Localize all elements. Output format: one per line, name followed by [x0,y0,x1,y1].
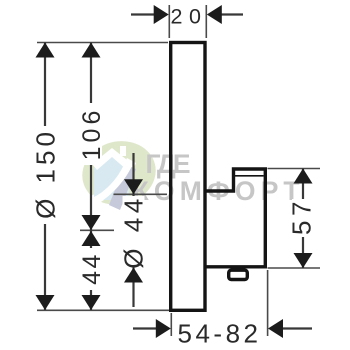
arrow 44 top [82,231,101,246]
extension line knob right bottom (y=268) [268,267,321,269]
dimension line 54-82 left tail [133,327,157,329]
knob bottom tab [229,270,248,279]
arrow 20 right [207,5,222,24]
svg-text:54-82: 54-82 [178,319,262,349]
arrow 54-82 right [268,319,283,338]
dimension line 20 right tail [220,13,243,15]
knob body and top step outline [205,169,265,267]
plate (escutcheon) outline [171,43,205,311]
white box for D44 text [123,196,145,266]
arrow 44 bottom [82,295,101,310]
watermark logo [75,133,162,212]
extension line bottom left vertical (x=171.3) [170,313,172,336]
dimension line 54-82 right tail [282,327,312,329]
extension line top right (x=206) [205,5,207,38]
white box for 44 text [80,248,102,290]
dimension line 20 left tail [131,13,156,15]
dimension line D150 (x=45) [44,43,46,311]
dimension line 106/44 (x=91) [90,43,92,311]
arrow 20 left [154,5,169,24]
arrow 57 top [294,169,313,184]
extension line bottom right vertical (x=267.6) [267,270,269,336]
svg-text:Ø 150: Ø 150 [31,128,61,219]
white box for 57 text [292,199,314,237]
arrow 106 bottom [82,215,101,230]
arrow D44 top (points down) [124,179,143,194]
arrow D44 bottom (points up) [124,268,143,283]
arrow 57 bottom [294,253,313,268]
extension line knob center (y=230.3) [80,229,114,231]
svg-text:Ø 44: Ø 44 [119,194,149,268]
white box for 106 text [80,103,102,165]
dimension line D44 (x=133.5) [132,153,134,307]
extension line top left (x=169) [168,5,170,38]
arrow D150 top [36,43,55,58]
svg-text:ГДЕ: ГДЕ [146,149,191,179]
knob step inner line [235,175,264,177]
extension line knob top level (y=194.3) [114,193,168,195]
white box for D150 text [34,126,57,224]
svg-text:57: 57 [287,197,317,235]
arrow 54-82 left [156,319,171,338]
dimension line 57 (x=303) [302,169,304,269]
extension line plate bottom (y=310.3) [37,309,170,311]
extension line knob right top (y=168.5) [268,168,321,170]
extension line plate top (y=42.5) [37,42,168,44]
arrow D150 bottom [36,295,55,310]
svg-text:44: 44 [78,252,106,285]
arrow 106 top [82,43,101,58]
svg-text:106: 106 [78,107,106,161]
svg-text:20: 20 [171,5,208,29]
